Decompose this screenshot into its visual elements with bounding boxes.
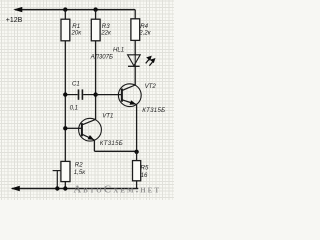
wire HL1 anode from R4 xyxy=(134,40,136,55)
R2 wiper tap wire xyxy=(53,171,61,189)
+12V arrow xyxy=(13,7,22,12)
junction node A / C1 left xyxy=(63,92,67,96)
svg-text:КТ315Б: КТ315Б xyxy=(100,140,123,147)
+12V supply rail wire xyxy=(15,9,135,11)
resistor R5 xyxy=(133,152,141,189)
svg-text:АЛ307Б: АЛ307Б xyxy=(90,54,113,61)
svg-text:2,2к: 2,2к xyxy=(138,29,151,36)
wire node A: R1 bottom to C1 junction xyxy=(64,41,66,95)
svg-text:АвтоСхем.нет: АвтоСхем.нет xyxy=(74,185,162,196)
wire VT1 emitter drop xyxy=(93,140,95,151)
svg-text:1,5к: 1,5к xyxy=(74,169,86,176)
svg-text:КТ315Б: КТ315Б xyxy=(142,107,165,114)
junction node B / C1 right xyxy=(93,92,97,96)
wire VT1 base from node A xyxy=(65,127,81,129)
ground rail arrow xyxy=(11,186,20,191)
svg-text:R2: R2 xyxy=(75,161,83,168)
HL1 light emission arrows xyxy=(146,56,156,66)
svg-text:C1: C1 xyxy=(72,81,80,88)
resistor R4 xyxy=(131,19,140,41)
wire VT2 emitter down to R5 junction xyxy=(136,105,138,153)
svg-text:VT2: VT2 xyxy=(145,83,157,90)
resistor R3 xyxy=(91,10,100,41)
junction node emitters / R5 xyxy=(134,150,138,154)
svg-text:20к: 20к xyxy=(71,30,83,37)
resistor R1 xyxy=(61,10,70,41)
wire HL1 cathode to VT2 collector xyxy=(134,66,136,85)
svg-text:HL1: HL1 xyxy=(113,46,124,53)
junction node A / VT1 base xyxy=(63,126,67,130)
junction node rail / R2 bottom xyxy=(63,186,67,190)
svg-text:+12В: +12В xyxy=(6,17,23,24)
wire VT2 base from node B xyxy=(96,94,122,96)
svg-text:R5: R5 xyxy=(141,164,149,171)
transistor VT2 xyxy=(118,84,141,107)
LED HL1 xyxy=(128,55,141,67)
wire R4 top drop from rail xyxy=(134,10,136,19)
svg-text:16: 16 xyxy=(141,172,148,179)
trimmer resistor R2 xyxy=(61,161,70,188)
ground return rail wire xyxy=(12,188,138,190)
junction node rail / R2 wiper xyxy=(55,186,59,190)
wire node B: R3 bottom to junction xyxy=(95,41,97,95)
junction node rail/R1 xyxy=(63,7,67,11)
svg-text:VT1: VT1 xyxy=(102,113,113,120)
wire emitter row to R5 node xyxy=(94,150,136,152)
capacitor C1 xyxy=(65,89,95,99)
wire node B: junction down to VT1 collector xyxy=(95,95,97,120)
svg-text:0,1: 0,1 xyxy=(70,105,78,112)
svg-text:22к: 22к xyxy=(100,30,112,37)
transistor VT1 xyxy=(79,118,102,141)
junction node rail/R3 xyxy=(93,7,97,11)
wire node A: C1 junction to VT1 base junction xyxy=(64,95,66,129)
wire node A: VT1 base junction down to R2 xyxy=(64,128,66,161)
